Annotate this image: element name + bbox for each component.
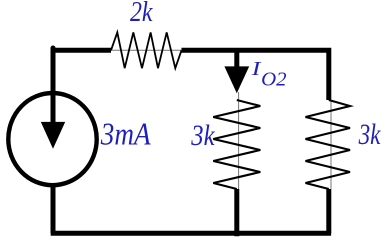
resistor R3 zigzag (3k right) <box>306 100 351 189</box>
resistor R2 zigzag (3k middle) <box>213 100 260 189</box>
current arrow I_O2 head <box>224 66 249 93</box>
wire: below current source <box>51 185 56 233</box>
svg-text:2k: 2k <box>130 0 153 28</box>
current arrow I_O2 shaft <box>234 50 239 68</box>
svg-text:3k: 3k <box>358 119 381 151</box>
resistor R1 zigzag (2k) <box>111 32 182 68</box>
wire: top-right horizontal segment and right corner <box>182 50 329 100</box>
resistor R3 axis line <box>330 100 332 189</box>
current source I1 arrowhead <box>41 122 65 149</box>
svg-text:O2: O2 <box>261 69 287 91</box>
svg-text:3k: 3k <box>190 120 215 152</box>
wire: middle branch bottom <box>234 189 239 236</box>
wire: bottom horizontal <box>51 231 331 236</box>
current source I1 circle <box>8 93 96 185</box>
resistor R2 axis line <box>238 92 240 189</box>
node: top-left junction cap <box>51 48 56 52</box>
resistor R1 axis line <box>111 49 182 51</box>
wire: top-left horizontal segment <box>53 48 111 53</box>
wire: right branch bottom <box>326 189 331 233</box>
svg-text:3mA: 3mA <box>100 117 151 152</box>
wire: left vertical shaft into current source <box>51 50 56 124</box>
